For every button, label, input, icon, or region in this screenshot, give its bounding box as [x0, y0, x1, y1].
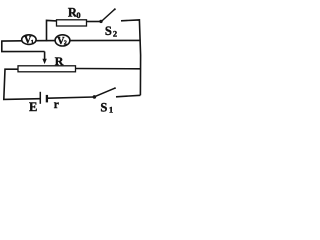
svg-text:2: 2: [113, 28, 117, 38]
svg-text:1: 1: [109, 105, 113, 115]
svg-text:R: R: [55, 54, 64, 68]
svg-text:S: S: [100, 100, 107, 114]
svg-text:2: 2: [64, 40, 67, 47]
svg-text:0: 0: [76, 10, 80, 20]
svg-text:1: 1: [31, 39, 34, 46]
svg-text:r: r: [54, 99, 59, 111]
svg-text:E: E: [29, 100, 37, 114]
svg-text:S: S: [105, 24, 112, 38]
